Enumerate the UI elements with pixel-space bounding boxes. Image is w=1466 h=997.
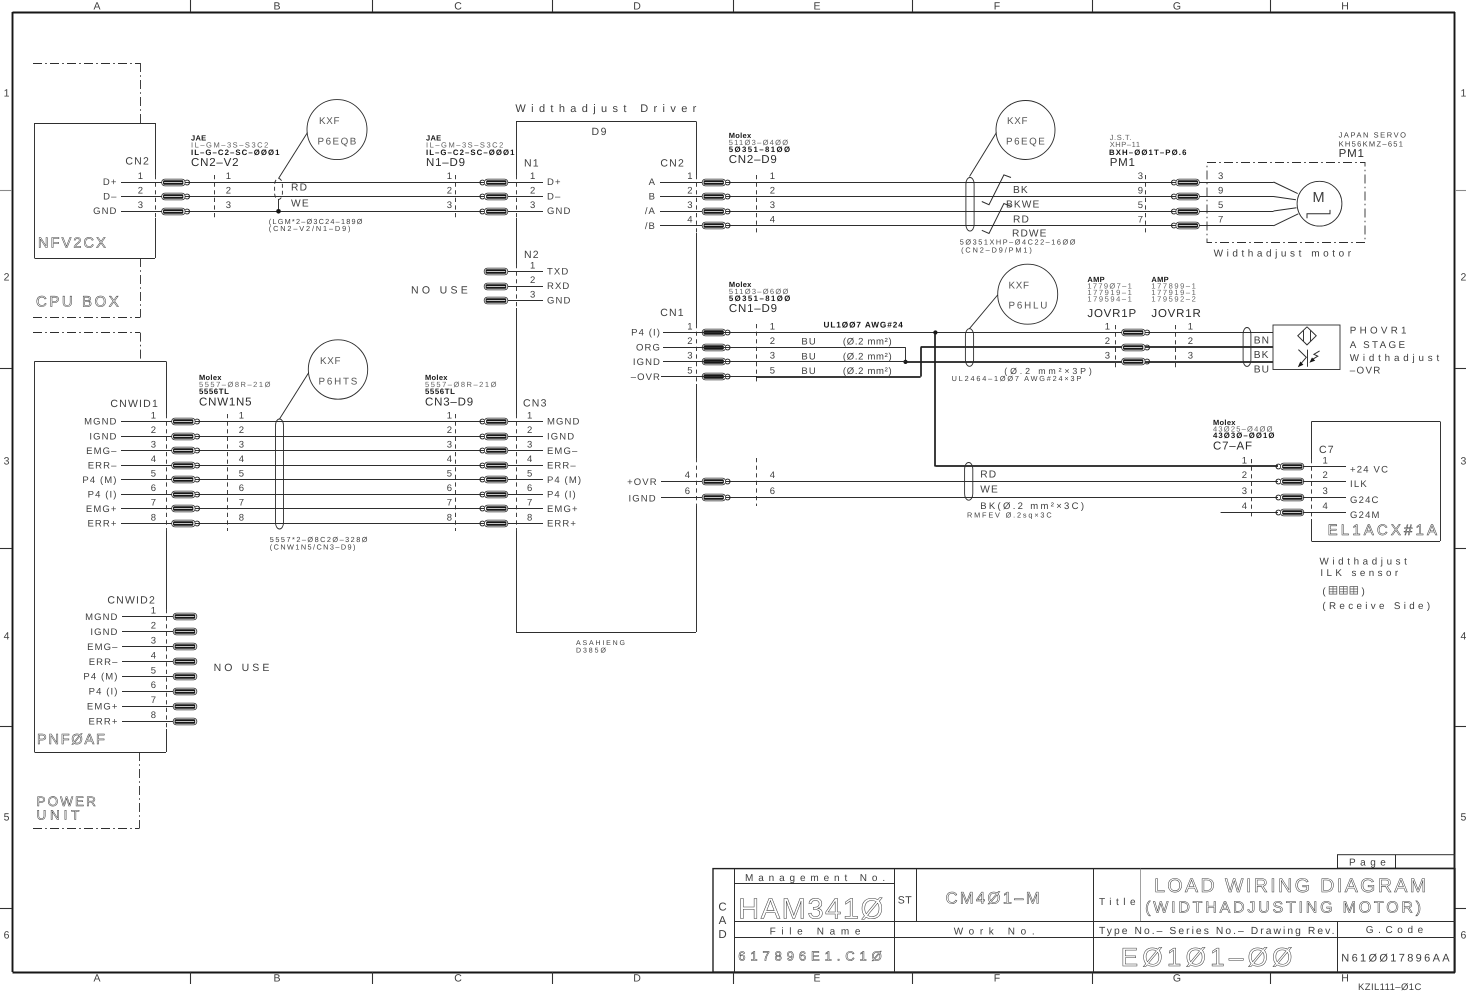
svg-text:7: 7: [447, 498, 452, 509]
svg-text:File Name: File Name: [770, 927, 864, 938]
svg-text:PM1: PM1: [1339, 148, 1365, 160]
svg-text:D–: D–: [547, 192, 561, 203]
svg-text:9: 9: [1218, 185, 1223, 196]
svg-text:C: C: [454, 973, 462, 985]
svg-text:5: 5: [1461, 812, 1466, 824]
svg-text:A: A: [93, 973, 100, 985]
svg-text:3: 3: [530, 289, 535, 300]
svg-text:WE: WE: [291, 199, 310, 210]
svg-text:KXF: KXF: [319, 116, 341, 127]
svg-text:B: B: [649, 192, 656, 203]
svg-text:G24C: G24C: [1350, 495, 1380, 506]
svg-text:4: 4: [151, 650, 156, 661]
svg-text:P4 (I): P4 (I): [547, 490, 577, 501]
svg-text:6: 6: [685, 486, 690, 497]
svg-text:TXD: TXD: [547, 267, 569, 278]
svg-text:P6HTS: P6HTS: [319, 377, 359, 388]
svg-text:UNIT: UNIT: [37, 808, 83, 823]
svg-text:BU: BU: [801, 351, 817, 362]
svg-text:5Ø351–81ØØ: 5Ø351–81ØØ: [729, 294, 791, 303]
svg-text:MGND: MGND: [547, 417, 580, 428]
svg-text:1: 1: [226, 171, 231, 182]
svg-text:N61ØØ17896AA: N61ØØ17896AA: [1341, 953, 1451, 965]
svg-text:(Ø.2 mm²): (Ø.2 mm²): [843, 337, 893, 348]
svg-text:D385Ø: D385Ø: [576, 647, 607, 655]
svg-text:RXD: RXD: [547, 281, 570, 292]
svg-text:Title: Title: [1099, 897, 1138, 908]
svg-text:BK: BK: [1254, 350, 1270, 361]
svg-text:D+: D+: [103, 177, 118, 188]
svg-text:B: B: [273, 1, 280, 13]
svg-text:1: 1: [770, 321, 775, 332]
svg-text:CPU BOX: CPU BOX: [36, 294, 122, 311]
svg-text:3: 3: [527, 439, 532, 450]
svg-text:A: A: [93, 1, 100, 13]
svg-text:GND: GND: [547, 296, 571, 307]
svg-text:BN: BN: [1254, 336, 1271, 347]
svg-text:BXH–ØØ1T–PØ.6: BXH–ØØ1T–PØ.6: [1109, 148, 1187, 157]
svg-text:Widthadjust Driver: Widthadjust Driver: [515, 103, 699, 115]
svg-text:1: 1: [447, 410, 452, 421]
svg-text:2: 2: [687, 185, 692, 196]
svg-text:ERR+: ERR+: [88, 716, 118, 727]
svg-text:4: 4: [1461, 631, 1466, 643]
svg-text:BKWE: BKWE: [1006, 200, 1040, 211]
svg-text:+24 VC: +24 VC: [1350, 464, 1389, 475]
svg-text:(CN2–V2/N1–D9): (CN2–V2/N1–D9): [269, 224, 351, 233]
svg-text:IGND: IGND: [89, 431, 117, 442]
svg-text:EØ1Ø1–ØØ: EØ1Ø1–ØØ: [1121, 942, 1300, 972]
svg-text:Management No.: Management No.: [745, 873, 888, 884]
svg-text:EMG–: EMG–: [547, 446, 578, 457]
svg-text:4: 4: [4, 631, 10, 643]
svg-text:7: 7: [527, 498, 532, 509]
svg-text:P4 (I): P4 (I): [88, 490, 118, 501]
svg-text:3: 3: [239, 439, 244, 450]
svg-text:CN2–D9: CN2–D9: [729, 154, 778, 166]
svg-text:PM1: PM1: [1110, 157, 1136, 169]
svg-text:(Ø.2 mm²): (Ø.2 mm²): [843, 366, 893, 377]
svg-text:179592–2: 179592–2: [1151, 295, 1196, 304]
svg-text:3: 3: [1461, 456, 1466, 468]
svg-text:ERR–: ERR–: [88, 460, 118, 471]
svg-text:5: 5: [1218, 200, 1223, 211]
svg-text:NFV2CX: NFV2CX: [38, 236, 109, 252]
svg-text:1: 1: [770, 171, 775, 182]
svg-text:D9: D9: [592, 126, 608, 138]
svg-text:2: 2: [1461, 272, 1466, 284]
svg-text:2: 2: [530, 275, 535, 286]
svg-text:3: 3: [770, 351, 775, 362]
svg-text:3: 3: [687, 351, 692, 362]
svg-text:GND: GND: [93, 206, 117, 217]
svg-text:EL1ACX#1A: EL1ACX#1A: [1328, 522, 1440, 539]
svg-text:6: 6: [151, 483, 156, 494]
svg-text:N2: N2: [524, 249, 540, 261]
svg-text:5: 5: [4, 812, 10, 824]
svg-text:): ): [1362, 587, 1365, 598]
svg-text:7: 7: [1138, 215, 1143, 226]
svg-text:7: 7: [239, 498, 244, 509]
svg-text:/B: /B: [645, 221, 656, 232]
svg-text:4: 4: [527, 454, 532, 465]
svg-text:M: M: [1312, 190, 1324, 206]
svg-text:3: 3: [151, 439, 156, 450]
svg-text:3: 3: [151, 636, 156, 647]
svg-text:NO USE: NO USE: [411, 285, 471, 297]
svg-text:WE: WE: [980, 485, 999, 496]
svg-text:4: 4: [685, 470, 690, 481]
svg-text:IGND: IGND: [629, 494, 657, 505]
svg-text:1: 1: [1188, 321, 1193, 332]
svg-text:1: 1: [530, 171, 535, 182]
svg-text:8: 8: [527, 512, 532, 523]
svg-text:PNFØAF: PNFØAF: [37, 732, 108, 748]
svg-text:6: 6: [770, 486, 775, 497]
svg-text:1: 1: [530, 260, 535, 271]
svg-text:P4 (I): P4 (I): [89, 687, 119, 698]
svg-text:CN3: CN3: [523, 398, 548, 410]
svg-text:ERR+: ERR+: [547, 519, 577, 530]
svg-text:EMG–: EMG–: [86, 446, 117, 457]
svg-text:EMG+: EMG+: [86, 504, 118, 515]
svg-text:1: 1: [687, 321, 692, 332]
svg-text:P6HLU: P6HLU: [1009, 301, 1049, 312]
svg-text:ILK sensor: ILK sensor: [1320, 568, 1399, 579]
svg-text:5: 5: [151, 469, 156, 480]
svg-text:IGND: IGND: [633, 357, 661, 368]
svg-text:D+: D+: [547, 177, 562, 188]
svg-text:2: 2: [4, 272, 10, 284]
svg-text:A: A: [719, 915, 727, 927]
svg-text:KH56KMZ–651: KH56KMZ–651: [1339, 140, 1404, 149]
svg-text:JAPAN SERVO: JAPAN SERVO: [1339, 131, 1407, 140]
svg-text:IGND: IGND: [90, 627, 118, 638]
svg-text:Widthadjust motor: Widthadjust motor: [1214, 249, 1354, 260]
svg-text:ASAHIENG: ASAHIENG: [576, 640, 626, 647]
svg-text:MGND: MGND: [84, 417, 117, 428]
svg-text:8: 8: [151, 512, 156, 523]
svg-text:2: 2: [447, 425, 452, 436]
svg-text:BU: BU: [1254, 365, 1271, 376]
svg-text:6: 6: [239, 483, 244, 494]
svg-text:5: 5: [447, 469, 452, 480]
svg-text:ERR–: ERR–: [89, 657, 119, 668]
svg-text:D–: D–: [103, 192, 117, 203]
svg-text:7: 7: [1218, 215, 1223, 226]
svg-text:2: 2: [239, 425, 244, 436]
svg-text:4: 4: [447, 454, 452, 465]
svg-text:EMG+: EMG+: [547, 504, 579, 515]
svg-text:KXF: KXF: [1009, 281, 1031, 292]
svg-text:2: 2: [527, 425, 532, 436]
svg-text:CN1–D9: CN1–D9: [729, 303, 778, 315]
svg-text:JOVR1P: JOVR1P: [1087, 308, 1137, 320]
svg-text:7: 7: [151, 498, 156, 509]
svg-text:4: 4: [770, 470, 775, 481]
svg-text:P6EQB: P6EQB: [318, 137, 358, 148]
svg-text:KXF: KXF: [1007, 116, 1029, 127]
svg-text:3: 3: [1323, 486, 1328, 497]
svg-text:BU: BU: [801, 337, 817, 348]
svg-text:3: 3: [1138, 171, 1143, 182]
svg-text:CN3–D9: CN3–D9: [425, 397, 474, 409]
svg-text:UL1ØØ7 AWG#24: UL1ØØ7 AWG#24: [824, 321, 904, 330]
svg-text:2: 2: [1323, 470, 1328, 481]
svg-text:P4 (M): P4 (M): [83, 672, 118, 683]
svg-text:HAM341Ø: HAM341Ø: [738, 894, 890, 926]
svg-text:F: F: [994, 1, 1000, 13]
svg-text:3: 3: [1242, 486, 1247, 497]
svg-text:CM4Ø1–M: CM4Ø1–M: [946, 890, 1044, 908]
svg-text:2: 2: [138, 185, 143, 196]
svg-text:1: 1: [527, 410, 532, 421]
svg-text:IL–G–C2–SC–ØØØ1: IL–G–C2–SC–ØØØ1: [191, 148, 280, 157]
svg-text:2: 2: [151, 425, 156, 436]
svg-text:617896E1.C1Ø: 617896E1.C1Ø: [738, 949, 885, 964]
svg-text:2: 2: [770, 185, 775, 196]
svg-text:3: 3: [770, 200, 775, 211]
svg-text:IL–G–C2–SC–ØØØ1: IL–G–C2–SC–ØØØ1: [426, 148, 515, 157]
svg-text:C: C: [718, 902, 726, 914]
svg-text:EMG–: EMG–: [87, 642, 118, 653]
svg-text:3: 3: [4, 456, 10, 468]
svg-text:5: 5: [687, 365, 692, 376]
svg-text:5Ø351–81ØØ: 5Ø351–81ØØ: [729, 145, 791, 154]
svg-text:2: 2: [151, 621, 156, 632]
svg-text:(WIDTHADJUSTING MOTOR): (WIDTHADJUSTING MOTOR): [1145, 900, 1423, 917]
svg-text:2: 2: [447, 185, 452, 196]
svg-text:D: D: [718, 929, 726, 941]
svg-text:2: 2: [1105, 336, 1110, 347]
svg-text:CNWID2: CNWID2: [107, 595, 156, 607]
svg-text:CN2–V2: CN2–V2: [191, 157, 239, 169]
svg-text:H: H: [1341, 1, 1349, 13]
svg-text:1: 1: [1323, 455, 1328, 466]
svg-text:A: A: [649, 177, 656, 188]
svg-text:E: E: [813, 973, 820, 985]
svg-text:GND: GND: [547, 206, 571, 217]
svg-text:3: 3: [1105, 351, 1110, 362]
svg-text:5: 5: [770, 365, 775, 376]
svg-text:3: 3: [226, 200, 231, 211]
svg-text:ILK: ILK: [1350, 479, 1368, 490]
svg-text:ORG: ORG: [636, 342, 661, 353]
svg-text:Widthadjust: Widthadjust: [1350, 353, 1441, 364]
svg-text:JOVR1R: JOVR1R: [1151, 308, 1201, 320]
svg-text:D: D: [633, 1, 641, 13]
svg-text:2: 2: [687, 336, 692, 347]
svg-text:5: 5: [1138, 200, 1143, 211]
svg-text:6: 6: [447, 483, 452, 494]
svg-text:5: 5: [151, 665, 156, 676]
svg-text:EMG+: EMG+: [87, 702, 119, 713]
svg-text:4: 4: [239, 454, 244, 465]
svg-text:(Receive Side): (Receive Side): [1322, 601, 1431, 612]
svg-text:N1–D9: N1–D9: [426, 157, 466, 169]
svg-text:NO USE: NO USE: [214, 662, 273, 674]
svg-text:CN1: CN1: [660, 307, 685, 319]
svg-text:5: 5: [239, 469, 244, 480]
svg-text:2: 2: [770, 336, 775, 347]
svg-text:P6EQE: P6EQE: [1006, 137, 1046, 148]
svg-text:5556TL: 5556TL: [425, 387, 455, 396]
svg-text:3: 3: [530, 200, 535, 211]
svg-text:3: 3: [138, 200, 143, 211]
svg-text:KXF: KXF: [320, 356, 342, 367]
svg-text:F: F: [994, 973, 1000, 985]
svg-text:CNWID1: CNWID1: [110, 398, 159, 410]
svg-text:G24M: G24M: [1350, 510, 1381, 521]
svg-text:4: 4: [151, 454, 156, 465]
svg-text:Type No.– Series No.– Drawing: Type No.– Series No.– Drawing Rev.: [1099, 926, 1335, 937]
svg-text:P4 (M): P4 (M): [547, 475, 582, 486]
svg-text:N1: N1: [524, 158, 540, 170]
svg-text:6: 6: [1461, 930, 1466, 942]
svg-text:4: 4: [1242, 501, 1247, 512]
svg-text:3: 3: [1218, 171, 1223, 182]
svg-text:A STAGE: A STAGE: [1350, 340, 1407, 351]
svg-text:KZIL111–Ø1C: KZIL111–Ø1C: [1358, 982, 1422, 992]
svg-text:8: 8: [239, 512, 244, 523]
svg-text:–OVR: –OVR: [1350, 366, 1382, 377]
svg-text:3: 3: [447, 439, 452, 450]
svg-text:CN2: CN2: [125, 156, 150, 168]
svg-text:5: 5: [527, 469, 532, 480]
svg-text:3: 3: [1188, 351, 1193, 362]
svg-text:P4 (M): P4 (M): [82, 475, 117, 486]
svg-text:RD: RD: [1013, 214, 1030, 225]
svg-text:Widthadjust: Widthadjust: [1320, 556, 1409, 567]
svg-text:1: 1: [447, 171, 452, 182]
svg-text:1: 1: [1105, 321, 1110, 332]
svg-text:ST: ST: [898, 895, 913, 907]
svg-text:43Ø3Ø–ØØ1Ø: 43Ø3Ø–ØØ1Ø: [1213, 431, 1275, 440]
svg-text:1: 1: [1242, 455, 1247, 466]
svg-text:RD: RD: [291, 183, 308, 194]
svg-text:8: 8: [151, 710, 156, 721]
svg-text:4: 4: [687, 215, 692, 226]
svg-text:MGND: MGND: [85, 612, 118, 623]
svg-text:5556TL: 5556TL: [199, 387, 229, 396]
svg-text:ERR–: ERR–: [547, 460, 577, 471]
svg-text:1: 1: [1461, 88, 1466, 100]
svg-text:2: 2: [530, 185, 535, 196]
svg-text:B: B: [273, 973, 280, 985]
svg-text:4: 4: [770, 215, 775, 226]
svg-text:1: 1: [151, 410, 156, 421]
svg-text:–OVR: –OVR: [631, 372, 661, 383]
svg-text:BK: BK: [1013, 185, 1029, 196]
svg-text:1: 1: [687, 171, 692, 182]
svg-text:1: 1: [239, 410, 244, 421]
svg-text:LOAD WIRING DIAGRAM: LOAD WIRING DIAGRAM: [1154, 875, 1429, 897]
svg-text:/A: /A: [645, 206, 656, 217]
svg-text:CNW1N5: CNW1N5: [199, 397, 252, 409]
svg-text:G: G: [1173, 973, 1181, 985]
svg-text:6: 6: [527, 483, 532, 494]
svg-text:3: 3: [687, 200, 692, 211]
svg-text:(CN2–D9/PM1): (CN2–D9/PM1): [961, 246, 1032, 255]
svg-text:2: 2: [1188, 336, 1193, 347]
svg-text:H: H: [1341, 973, 1349, 985]
svg-text:IGND: IGND: [547, 431, 575, 442]
svg-text:C7–AF: C7–AF: [1213, 441, 1253, 453]
svg-text:(Ø.2 mm²): (Ø.2 mm²): [843, 351, 893, 362]
svg-text:BU: BU: [801, 366, 817, 377]
svg-text:2: 2: [1242, 470, 1247, 481]
svg-text:CN2: CN2: [660, 158, 685, 170]
svg-text:6: 6: [4, 930, 10, 942]
svg-text:ERR+: ERR+: [87, 519, 117, 530]
svg-text:1: 1: [138, 171, 143, 182]
svg-text:4: 4: [1323, 501, 1328, 512]
svg-text:D: D: [633, 973, 641, 985]
svg-text:8: 8: [447, 512, 452, 523]
svg-text:G: G: [1173, 1, 1181, 13]
svg-text:+OVR: +OVR: [627, 477, 658, 488]
svg-text:RD: RD: [980, 470, 997, 481]
svg-text:C7: C7: [1319, 444, 1335, 456]
svg-text:2: 2: [226, 185, 231, 196]
svg-text:E: E: [813, 1, 820, 13]
svg-text:(CNW1N5/CN3–D9): (CNW1N5/CN3–D9): [270, 543, 356, 552]
svg-text:1: 1: [151, 606, 156, 617]
svg-text:1: 1: [4, 88, 10, 100]
svg-text:6: 6: [151, 680, 156, 691]
svg-text:179594–1: 179594–1: [1087, 295, 1132, 304]
svg-text:9: 9: [1138, 185, 1143, 196]
svg-text:UL2464–1ØØ7 AWG#24×3P: UL2464–1ØØ7 AWG#24×3P: [952, 374, 1082, 383]
svg-text:C: C: [454, 1, 462, 13]
svg-text:3: 3: [447, 200, 452, 211]
svg-text:P4 (I): P4 (I): [631, 328, 661, 339]
svg-text:7: 7: [151, 695, 156, 706]
